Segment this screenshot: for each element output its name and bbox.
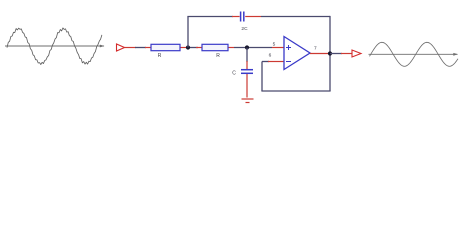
feedback bottom loop wire	[261, 54, 330, 92]
svg-text:R: R	[216, 53, 220, 59]
pin 7 output red lead	[310, 53, 328, 55]
resistor R1	[145, 44, 186, 50]
svg-text:C: C	[232, 71, 236, 77]
svg-text:R: R	[158, 53, 162, 59]
svg-text:7: 7	[314, 45, 317, 51]
wire node A up to feedback top	[187, 17, 189, 48]
wire output node to port	[330, 53, 342, 55]
feedback right vertical wire (top)	[329, 16, 331, 54]
svg-text:5: 5	[273, 42, 276, 48]
wire node B down to capacitor C	[246, 48, 248, 63]
input waveform axis	[5, 45, 105, 48]
input noisy sine wave	[7, 28, 102, 65]
feedback top wire right	[261, 16, 330, 18]
output clean sine wave	[370, 42, 459, 66]
feedback top wire left	[187, 16, 233, 18]
ground	[242, 99, 254, 103]
pin 5 red lead	[272, 47, 284, 49]
wire R1 to node A	[186, 47, 198, 49]
pin 6 red lead	[268, 61, 284, 63]
resistor R2	[196, 44, 234, 50]
output node junction	[328, 51, 332, 55]
capacitor C	[241, 61, 253, 98]
output port	[341, 50, 361, 57]
wire R2 to node B	[234, 47, 272, 49]
svg-text:6: 6	[269, 53, 272, 59]
op-amp U1	[284, 37, 310, 70]
node B junction	[245, 45, 249, 49]
input port	[117, 44, 137, 51]
capacitor 2C	[232, 12, 261, 22]
output waveform axis	[369, 53, 459, 56]
wire input to R1	[135, 47, 146, 49]
svg-text:2C: 2C	[241, 26, 248, 32]
node A junction	[186, 45, 190, 49]
